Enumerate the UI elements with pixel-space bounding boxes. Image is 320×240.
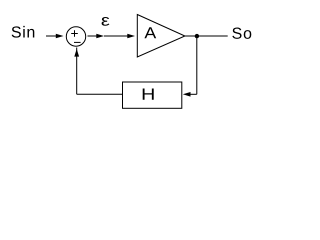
amplifier label A bbox=[144, 27, 156, 38]
node So label bbox=[232, 28, 251, 39]
block label H bbox=[143, 88, 154, 99]
minus sign inside summing junction bbox=[74, 41, 81, 43]
op-amp A triangle bbox=[137, 15, 185, 58]
wire amplifier output to So bbox=[185, 35, 228, 37]
block H rectangle bbox=[123, 82, 182, 108]
wire feedback into H block bbox=[190, 93, 197, 95]
wire input to summing junction bbox=[46, 35, 57, 37]
wire feedback up to summing junction bbox=[76, 48, 78, 95]
plus sign inside summing junction bbox=[71, 30, 78, 37]
wire H block output left bbox=[77, 93, 123, 95]
summing junction U1 circle bbox=[66, 27, 85, 46]
arrowhead into H block bbox=[183, 92, 191, 97]
arrowhead mid epsilon wire bbox=[96, 34, 104, 39]
wire summing junction to first arrowhead bbox=[88, 35, 98, 37]
arrowhead into summing junction bbox=[56, 34, 64, 39]
node Sin label bbox=[12, 26, 35, 38]
wire feedback vertical from junction bbox=[196, 36, 198, 94]
arrowhead into summing junction bottom bbox=[74, 49, 79, 57]
wire epsilon to amplifier bbox=[104, 35, 128, 37]
junction node dot bbox=[195, 34, 199, 38]
node epsilon label bbox=[102, 17, 110, 26]
arrowhead into amplifier bbox=[127, 34, 135, 39]
